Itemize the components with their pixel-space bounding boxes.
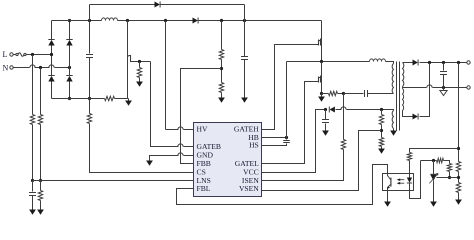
resistor R-fbb-top <box>221 21 223 50</box>
wire GND pin <box>150 156 194 161</box>
wire LED bias <box>410 149 459 153</box>
diode D-out-top <box>413 60 418 66</box>
junction TL431 cathode tap <box>432 159 435 162</box>
junction Q3 source <box>320 92 323 95</box>
ground TL431 anode <box>433 181 435 202</box>
wire rectified rail <box>52 20 322 22</box>
wire secondary top out <box>403 62 467 64</box>
transistor opto phototransistor <box>390 178 392 187</box>
wire L line <box>14 54 52 56</box>
ground opto emitter <box>387 191 389 202</box>
wire VCC run <box>262 110 382 173</box>
resistor R-shunt-pfc <box>105 96 115 100</box>
wire FBL run <box>177 165 388 205</box>
junction Q1 gate <box>138 60 141 63</box>
junction N at bridge <box>68 66 71 69</box>
diode D-vcc <box>330 107 335 113</box>
junction shunt node <box>342 92 345 95</box>
opto light arrows <box>398 180 404 184</box>
wire FBB run <box>181 69 222 164</box>
capacitor C-bulk <box>244 21 246 57</box>
capacitor C-res (series) <box>344 93 364 95</box>
pin stubs right <box>262 129 266 131</box>
junction rail x221 (divider tap) <box>220 19 223 22</box>
resistor R-Nsense <box>38 115 42 125</box>
resistor R-gate1 <box>139 62 141 68</box>
junction bottom rail x89.6 <box>88 97 91 100</box>
svg-text:HV: HV <box>197 125 208 134</box>
optocoupler U2 box <box>383 174 414 191</box>
ground C-LNS <box>29 210 36 215</box>
svg-text:GATEL: GATEL <box>235 159 259 168</box>
junction aux node <box>380 108 383 111</box>
junction rail x128 (PFC FET drain) <box>126 19 129 22</box>
resistor R-comp2 <box>447 164 451 172</box>
svg-text:HS: HS <box>249 141 259 150</box>
junction rail x89 <box>88 19 91 22</box>
svg-text:FBB: FBB <box>197 159 211 168</box>
junction LED bias tap <box>457 147 460 150</box>
wire HS pin <box>262 144 287 146</box>
capacitor C-filter <box>89 21 91 54</box>
transistor Q1 (PFC MOSFET) <box>127 21 129 99</box>
transformer T1 core <box>397 62 400 131</box>
svg-text:N: N <box>3 64 9 73</box>
junction rail x165 (HV tap) <box>164 19 167 22</box>
junction LNS node B <box>39 179 42 182</box>
junction return rail cap <box>442 86 445 89</box>
diode D2 (bridge) <box>66 40 72 46</box>
junction bridge bottom col2 <box>68 97 71 100</box>
junction bridge top col2 <box>68 19 71 22</box>
ground GND pin <box>146 161 153 166</box>
junction ref node <box>457 176 460 179</box>
resistor R-aux-bot <box>379 138 383 147</box>
transistor Q2 (high-side MOSFET) <box>321 21 323 62</box>
inductor T1 primary winding <box>392 64 393 94</box>
resistor R-isen (shunt) <box>322 93 329 95</box>
wire comp network <box>421 161 450 164</box>
wire bypass branch <box>90 5 245 21</box>
resistor R-div-bot <box>456 183 460 193</box>
resistor R-Lsense <box>30 115 34 125</box>
ground primary (bottom rail) <box>125 101 132 106</box>
node Vout+ terminal <box>467 61 470 64</box>
diode D-bypass <box>155 2 160 8</box>
wire GATEB run <box>151 62 194 147</box>
wire bridge bottom rail <box>52 99 129 101</box>
junction N-sense <box>39 66 42 69</box>
node L (AC line input terminal) <box>10 53 13 56</box>
node N (AC neutral input terminal) <box>10 66 13 69</box>
resistor R-CS <box>89 99 91 114</box>
wire switch node <box>287 62 394 64</box>
wire LNS to IC <box>33 180 194 182</box>
resistor R-led <box>407 153 411 161</box>
wire Q1 gate <box>131 61 151 62</box>
wire ISEN run <box>262 94 344 181</box>
wire bridge column 2 <box>69 21 71 99</box>
junction FBB node <box>220 67 223 70</box>
resistor R-LNS <box>40 181 42 191</box>
inductor T1 secondary bottom <box>403 89 404 111</box>
wire HB pin <box>262 137 287 139</box>
wire ref line <box>437 177 459 179</box>
ground FBB divider <box>218 98 225 103</box>
junction L at bridge <box>50 53 53 56</box>
junction HB <box>285 136 288 139</box>
ground Q3 source <box>321 94 323 97</box>
junction VSEN node <box>380 129 383 132</box>
fuse F1 <box>16 53 18 55</box>
resistor R-comp <box>437 158 444 162</box>
junction rail x245 (bulk) <box>243 19 246 22</box>
junction comp-ref <box>448 176 451 179</box>
diode D1 (bridge) <box>48 40 54 46</box>
wire GATEH run <box>262 45 319 130</box>
junction L-sense <box>31 53 34 56</box>
wire LED cathode run <box>410 161 421 199</box>
junction out rail x429.5 <box>428 61 431 64</box>
transistor Q3 (low-side MOSFET) <box>321 62 323 94</box>
regulator U3 TL431 <box>433 161 435 175</box>
inductor T1 secondary top <box>403 63 404 87</box>
resistor R-fbb-bot <box>219 83 223 93</box>
diode opto LED <box>409 174 411 178</box>
inductor T1 aux winding <box>382 110 394 111</box>
diode D4 (bridge) <box>66 76 72 82</box>
ground C-vcc <box>322 131 329 136</box>
op-amp U1 controller IC <box>194 123 262 197</box>
wire GATEL run <box>262 82 319 164</box>
capacitor C-LNS <box>32 181 34 192</box>
junction out rail x443.8 <box>442 61 445 64</box>
wire L-sense vertical <box>32 55 34 181</box>
junction LNS node A <box>31 179 34 182</box>
ground earth output <box>443 88 445 91</box>
resistor R-div-top <box>458 63 460 162</box>
pin stubs left <box>190 129 194 131</box>
resistor R-aux-top <box>381 110 383 115</box>
wire center tap rail <box>403 87 467 89</box>
ground R-LNS <box>37 210 44 215</box>
diode D-out-bot <box>413 114 418 120</box>
wire bridge column 1 <box>51 21 53 99</box>
wire N-sense vertical <box>40 68 42 181</box>
ground aux winding <box>393 129 395 131</box>
ground R-gate1 <box>136 82 143 87</box>
wire N line with hops <box>14 67 70 69</box>
capacitor C-out <box>443 63 445 71</box>
ground C-bulk <box>241 98 248 103</box>
ground output divider <box>455 200 462 205</box>
wire secondary bottom out <box>403 63 430 117</box>
ground aux divider <box>378 149 385 154</box>
junction out rail x458.9 <box>457 61 460 64</box>
junction switch node <box>320 60 323 63</box>
inductor L-boost <box>102 18 118 21</box>
svg-text:VSEN: VSEN <box>239 184 259 193</box>
wire center tap link <box>402 87 404 89</box>
capacitor C-boot <box>286 62 288 140</box>
junction VCC cap <box>324 108 327 111</box>
wire CS to IC <box>90 124 194 173</box>
svg-text:L: L <box>3 50 8 59</box>
capacitor C-vcc <box>325 110 327 120</box>
wire HV run <box>166 21 194 130</box>
svg-text:FBL: FBL <box>197 184 211 193</box>
resistor R-isen-filter <box>341 140 345 150</box>
diode D-boost <box>193 18 198 24</box>
wire VSEN run <box>262 131 382 191</box>
diode D3 (bridge) <box>48 76 54 82</box>
node Vout- terminal <box>467 86 470 89</box>
inductor L-res (resonant) <box>370 59 386 62</box>
